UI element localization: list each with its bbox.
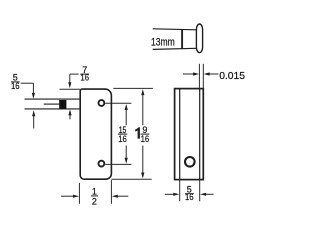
hole top xyxy=(99,100,105,106)
dim 1 9/16 bottom extension line xyxy=(111,178,151,180)
magnet cylinder shoulder xyxy=(181,29,183,48)
magnet housing (right view) outer rect xyxy=(175,89,204,180)
dim 5/16 label (left) xyxy=(11,73,20,91)
dim 15/16 extension line bottom hole xyxy=(105,163,131,165)
svg-text:16: 16 xyxy=(141,134,150,144)
inner line right xyxy=(199,89,201,180)
dim 0.015 right arrow xyxy=(204,72,219,75)
dim 5/16 leader + down arrow xyxy=(21,83,35,99)
dim 7/16 label (top) xyxy=(80,65,89,83)
dim 0.015 extension lines xyxy=(198,64,200,88)
dim 5/16 bottom text xyxy=(185,184,194,202)
magnet cylinder body bottom line xyxy=(153,48,197,49)
dim 1/2 right arrow xyxy=(112,195,129,198)
magnet flange xyxy=(196,24,202,53)
switch barrel bottom line / wire xyxy=(25,108,81,110)
dim 15/16 extension line top hole xyxy=(105,102,131,104)
stud middle line xyxy=(44,103,60,105)
dim 15/16 text xyxy=(118,125,128,144)
svg-text:16: 16 xyxy=(185,192,194,202)
svg-text:13mm: 13mm xyxy=(151,36,175,48)
dim 1/2 extension lines xyxy=(78,183,80,204)
dim 7/16 leader + down arrow xyxy=(68,74,78,88)
dim 1/2 left arrow xyxy=(61,195,79,198)
dim 5/16 left arrow xyxy=(165,193,180,196)
dim 0.015 left arrow xyxy=(183,72,199,75)
dim 1 9/16 line with arrows xyxy=(141,89,144,178)
magnet cylinder (13mm) body top line xyxy=(153,29,197,30)
dim 1 9/16 top extension line xyxy=(113,87,153,89)
hole bottom xyxy=(99,161,105,167)
svg-text:2: 2 xyxy=(92,197,97,207)
plate top edge extension line xyxy=(60,88,81,90)
inner line left xyxy=(179,89,181,180)
dim 15/16 line with arrows xyxy=(125,104,128,164)
dim 5/16 (bottom right) extension lines xyxy=(179,180,181,202)
dim 1/2 text xyxy=(91,187,98,207)
svg-text:16: 16 xyxy=(80,73,89,83)
svg-text:16: 16 xyxy=(118,134,127,144)
mounting plate (left view) xyxy=(80,89,111,179)
switch barrel top line / wire xyxy=(25,98,81,100)
svg-text:0.015: 0.015 xyxy=(219,70,245,82)
dim 1 9/16 text xyxy=(135,125,149,144)
svg-text:1: 1 xyxy=(92,187,97,197)
right view hole xyxy=(185,157,195,167)
dim 5/16 right arrow xyxy=(200,193,214,196)
barrel end cap (black block) xyxy=(59,100,66,109)
dim 5/16 up arrow xyxy=(32,110,35,128)
svg-text:16: 16 xyxy=(11,81,20,91)
dim 7/16 up arrow xyxy=(68,109,71,119)
